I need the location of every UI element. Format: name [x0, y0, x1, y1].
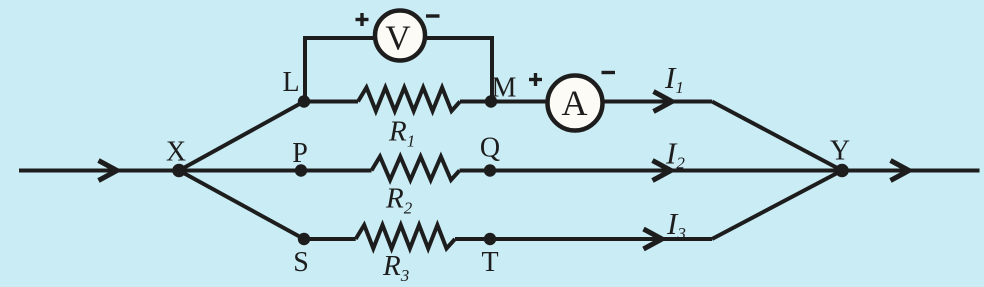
svg-text:S: S [293, 247, 309, 278]
plus sign ammeter [529, 78, 542, 81]
minus sign ammeter [602, 71, 616, 74]
node Q [484, 164, 496, 176]
node T [484, 233, 496, 245]
wire S to R3 [304, 237, 356, 241]
resistor R1 zigzag [358, 88, 460, 112]
node X [172, 164, 186, 178]
svg-text:P: P [292, 138, 308, 169]
voltmeter U-V circle [375, 11, 425, 61]
arrow right output [891, 161, 910, 181]
arrow I2 [653, 161, 672, 181]
arrow left input [99, 161, 118, 181]
wire left input [19, 169, 179, 173]
resistor R2 zigzag [372, 157, 460, 181]
wire T to corner [455, 237, 712, 241]
wire L to R1 [304, 100, 358, 104]
svg-text:T: T [481, 247, 498, 278]
node S [298, 233, 310, 245]
node P [295, 164, 307, 176]
wire ammeter to corner [602, 100, 713, 104]
arrow I3 [644, 229, 663, 249]
wire diagonal top-right to Y [712, 102, 842, 171]
wire voltmeter right riser [427, 38, 492, 102]
minus sign voltmeter [426, 14, 440, 17]
resistor R3 zigzag [356, 225, 455, 249]
plus sign voltmeter [356, 18, 369, 21]
svg-text:M: M [492, 73, 517, 104]
ammeter U-A circle [548, 76, 603, 131]
svg-text:Y: Y [830, 136, 850, 167]
wire middle X to Y [179, 169, 372, 173]
wire X to S diagonal [179, 171, 304, 240]
svg-text:A: A [562, 83, 588, 123]
wire voltmeter left riser [305, 38, 373, 102]
arrow I1 [654, 92, 673, 112]
wire Y to right output [842, 169, 980, 173]
wire Q to Y [460, 169, 843, 173]
node Y [835, 164, 849, 178]
svg-text:X: X [166, 137, 186, 168]
svg-text:Q: Q [480, 133, 500, 164]
wire R1 to M to ammeter [460, 100, 547, 104]
wire X to L diagonal [179, 102, 304, 171]
node M [485, 95, 497, 107]
node L [298, 95, 310, 107]
svg-text:V: V [385, 19, 410, 58]
wire diagonal bottom-right to Y [712, 171, 842, 240]
svg-text:L: L [282, 67, 299, 98]
